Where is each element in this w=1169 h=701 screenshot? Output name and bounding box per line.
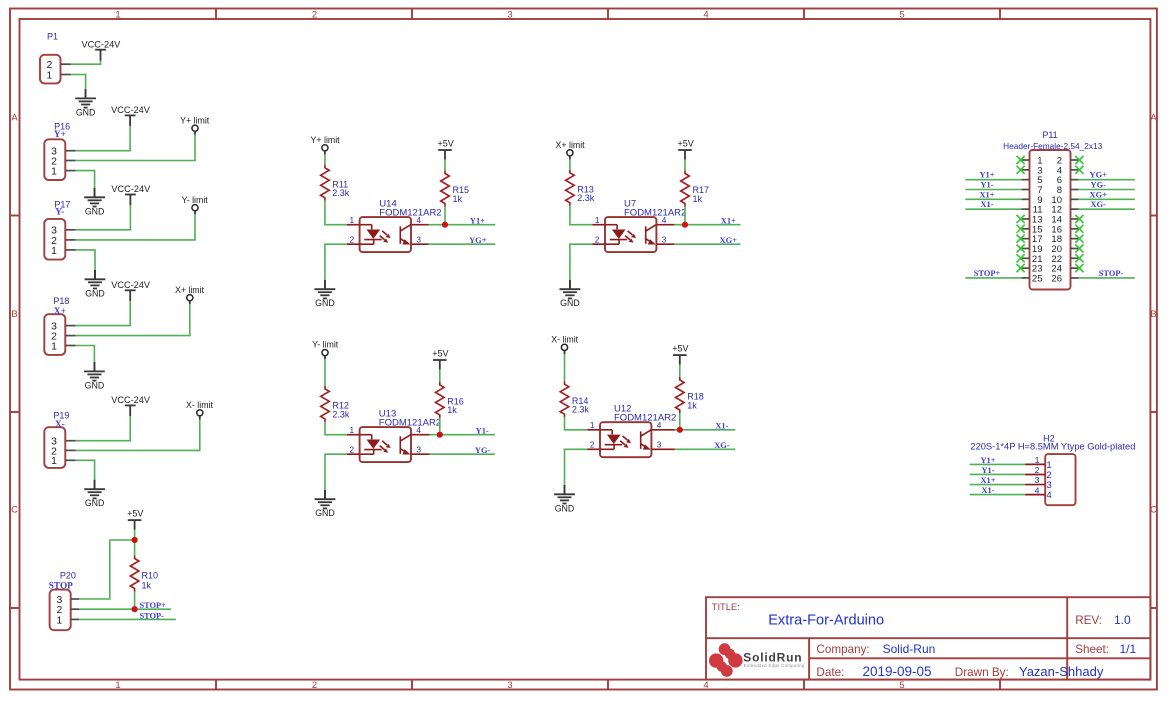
ground (P1) [75, 89, 96, 117]
wire [570, 206, 593, 225]
svg-text:X- limit: X- limit [551, 335, 578, 345]
junction [132, 537, 138, 543]
svg-text:3: 3 [507, 680, 512, 691]
svg-text:YG+: YG+ [469, 236, 487, 245]
svg-text:Company:: Company: [816, 643, 869, 656]
svg-text:4: 4 [1035, 485, 1040, 495]
ground (U12) [554, 485, 575, 513]
resistor R13 [566, 170, 575, 206]
connector P16 [44, 139, 75, 180]
svg-text:2.3k: 2.3k [332, 188, 350, 198]
svg-text:C: C [11, 504, 18, 515]
power +5V (U12) [672, 344, 688, 365]
svg-text:Drawn By:: Drawn By: [955, 666, 1009, 679]
frame tick [607, 9, 609, 20]
frame tick [215, 680, 217, 690]
no-connect [1017, 215, 1025, 223]
node X+ limit flag [556, 140, 586, 160]
wire / net YG+ [429, 243, 496, 245]
ground (P18) [84, 362, 105, 390]
wire [79, 540, 134, 599]
svg-text:Y1-: Y1- [980, 180, 993, 189]
no-connect [1075, 254, 1083, 262]
ground (U14) [315, 280, 336, 308]
svg-text:Solid-Run: Solid-Run [883, 642, 936, 656]
svg-text:P20: P20 [60, 570, 76, 580]
svg-text:2: 2 [312, 9, 317, 20]
wire [76, 135, 195, 161]
svg-text:FODM121AR2: FODM121AR2 [379, 207, 441, 218]
svg-text:3: 3 [507, 9, 512, 20]
svg-text:4: 4 [1046, 490, 1052, 501]
svg-text:1/1: 1/1 [1120, 642, 1137, 656]
svg-text:YG-: YG- [475, 446, 491, 455]
wire [325, 454, 347, 490]
wire / net X1+ [674, 224, 740, 226]
svg-text:4: 4 [703, 9, 708, 20]
svg-text:1: 1 [56, 615, 62, 626]
optocoupler U14 pins 1,2,3,4 [347, 215, 429, 252]
svg-text:3: 3 [1035, 475, 1040, 485]
svg-text:A: A [11, 112, 18, 123]
power +5V (P20) [127, 508, 143, 529]
no-connect [1017, 166, 1025, 174]
power +5V (U14) [437, 138, 453, 159]
wire / net XG- [675, 448, 735, 450]
power VCC-24V (P16) [111, 105, 151, 126]
SolidRun logo mark [709, 643, 743, 677]
svg-text:1k: 1k [693, 194, 703, 204]
power +5V (U13) [432, 348, 448, 369]
frame tick [215, 9, 217, 20]
wire [570, 244, 593, 280]
svg-text:Y1-: Y1- [476, 426, 489, 435]
svg-text:XG-: XG- [714, 441, 730, 450]
svg-text:X- limit: X- limit [186, 400, 213, 410]
svg-text:Y-: Y- [55, 207, 64, 217]
no-connect [1017, 235, 1025, 243]
node X+ limit flag [175, 285, 205, 305]
svg-text:X1+: X1+ [721, 216, 736, 225]
svg-text:X1-: X1- [715, 422, 728, 431]
svg-text:1.0: 1.0 [1114, 613, 1131, 627]
svg-text:Y+ limit: Y+ limit [180, 115, 210, 125]
no-connect [1075, 264, 1083, 272]
no-connect [1075, 235, 1083, 243]
node X- limit flag [186, 400, 213, 420]
node X- limit flag [551, 335, 578, 355]
svg-text:XG-: XG- [1091, 200, 1107, 209]
svg-text:X1-: X1- [981, 486, 994, 495]
node Y+ limit flag [180, 115, 210, 135]
wire [679, 365, 681, 377]
junction [442, 222, 448, 228]
ground (U13) [315, 490, 336, 518]
svg-text:YG+: YG+ [1090, 171, 1108, 180]
svg-text:Y1+: Y1+ [470, 216, 485, 225]
svg-text:P18: P18 [53, 296, 69, 306]
frame tick [10, 411, 20, 413]
svg-text:1k: 1k [142, 581, 152, 591]
no-connect [1075, 166, 1083, 174]
resistor R11 [321, 165, 330, 201]
wire [324, 359, 326, 386]
svg-text:X1-: X1- [980, 200, 993, 209]
wire [569, 159, 571, 169]
svg-text:P11: P11 [1042, 130, 1057, 140]
svg-text:Y1+: Y1+ [979, 171, 994, 180]
svg-text:1: 1 [115, 680, 120, 691]
no-connect [1017, 156, 1025, 164]
wire [444, 207, 446, 225]
frame tick [803, 680, 805, 690]
wire / net Y1- [430, 434, 495, 436]
svg-text:X1+: X1+ [980, 476, 995, 485]
wire / net STOP- [79, 618, 176, 620]
power VCC-24V (P19) [111, 395, 151, 416]
wire / net YG- [1079, 188, 1135, 190]
svg-text:2019-09-05: 2019-09-05 [863, 664, 932, 679]
svg-text:Y+: Y+ [54, 130, 66, 140]
svg-text:TITLE:: TITLE: [712, 602, 740, 612]
svg-text:XG+: XG+ [720, 236, 738, 245]
ground (U7) [560, 280, 581, 308]
wire [76, 416, 131, 441]
node Y- limit flag [182, 195, 209, 214]
power VCC-24V (P18) [111, 280, 151, 301]
resistor R12 [321, 386, 330, 422]
svg-text:X-: X- [55, 420, 65, 430]
svg-text:1: 1 [47, 70, 53, 81]
svg-text:Yazan-Shhady: Yazan-Shhady [1019, 664, 1104, 679]
svg-text:STOP+: STOP+ [974, 269, 1001, 278]
svg-text:FODM121AR2: FODM121AR2 [614, 412, 676, 423]
wire [71, 61, 101, 65]
wire [76, 346, 95, 363]
svg-text:25: 25 [1032, 273, 1043, 284]
connector P17 [44, 219, 75, 260]
svg-text:STOP+: STOP+ [139, 601, 166, 610]
svg-text:220S-1*4P H=8.5MM Ytype Gold-p: 220S-1*4P H=8.5MM Ytype Gold-plated [970, 441, 1135, 451]
wire [134, 530, 136, 540]
wire / net X1- [965, 208, 1021, 210]
node Y+ limit flag [311, 135, 341, 155]
wire [439, 370, 441, 382]
no-connect [1017, 264, 1025, 272]
resistor R15 [441, 171, 450, 207]
connector P20 [50, 590, 80, 631]
svg-text:Y+ limit: Y+ limit [311, 135, 341, 145]
svg-text:B: B [1150, 309, 1156, 320]
frame tick [803, 9, 805, 20]
svg-text:FODM121AR2: FODM121AR2 [624, 207, 686, 218]
resistor R18 [676, 377, 685, 413]
frame tick [607, 680, 609, 690]
wire / net X1- [970, 494, 1025, 496]
wire / net Y1+ [970, 463, 1025, 465]
wire [76, 460, 95, 480]
svg-text:2.3k: 2.3k [332, 409, 350, 419]
svg-text:1k: 1k [687, 400, 697, 410]
optocoupler U13 pins 1,2,3,4 [347, 425, 430, 462]
wire / net Y1+ [429, 224, 496, 226]
wire [76, 214, 195, 240]
no-connect [1017, 244, 1025, 252]
wire / net Y1- [970, 473, 1025, 475]
svg-text:2.3k: 2.3k [572, 405, 590, 415]
svg-text:C: C [1150, 504, 1157, 515]
wire / net YG+ [1079, 179, 1135, 181]
svg-text:5: 5 [899, 9, 904, 20]
frame tick [999, 9, 1001, 20]
svg-text:X1+: X1+ [979, 190, 994, 199]
svg-text:Y- limit: Y- limit [312, 340, 339, 350]
wire [325, 422, 347, 435]
svg-text:2: 2 [312, 680, 317, 691]
svg-text:FODM121AR2: FODM121AR2 [379, 417, 441, 428]
svg-text:1: 1 [51, 456, 57, 467]
svg-text:B: B [11, 309, 17, 320]
wire [134, 592, 136, 610]
connector H2 [1025, 454, 1075, 505]
svg-text:2.3k: 2.3k [577, 193, 595, 203]
svg-text:1k: 1k [453, 194, 463, 204]
svg-text:YG-: YG- [1091, 180, 1107, 189]
svg-text:Date:: Date: [816, 666, 844, 679]
resistor R14 [560, 381, 569, 417]
wire [134, 540, 136, 556]
ground (P16) [84, 188, 105, 216]
junction [132, 606, 138, 612]
connector P19 [44, 427, 75, 468]
no-connect [1075, 215, 1083, 223]
wire [325, 244, 347, 280]
wire [684, 160, 686, 171]
svg-text:5: 5 [899, 680, 904, 691]
frame tick [411, 680, 413, 690]
node Y- limit flag [312, 340, 339, 360]
wire [76, 126, 130, 151]
frame tick [1150, 215, 1157, 217]
frame tick [1150, 607, 1157, 609]
svg-text:X+: X+ [54, 307, 66, 317]
no-connect [1075, 156, 1083, 164]
wire [565, 417, 588, 430]
wire [76, 205, 131, 230]
wire / net Y1- [965, 188, 1021, 190]
wire / net XG- [1079, 208, 1135, 210]
title block [706, 597, 1150, 679]
wire [324, 154, 326, 164]
svg-text:Sheet:: Sheet: [1075, 643, 1109, 656]
resistor R17 [681, 171, 690, 207]
svg-text:STOP-: STOP- [139, 612, 164, 621]
optocoupler U7 pins 1,2,3,4 [592, 215, 674, 252]
svg-text:26: 26 [1051, 273, 1062, 284]
svg-text:STOP: STOP [49, 582, 73, 592]
wire / net YG- [430, 453, 495, 455]
frame tick [999, 680, 1001, 690]
svg-text:1: 1 [51, 341, 57, 352]
wire [679, 413, 681, 430]
resistor R16 [436, 382, 445, 418]
frame tick [411, 9, 413, 20]
svg-text:XG+: XG+ [1090, 190, 1108, 199]
connector P1 [40, 55, 71, 84]
wire [565, 449, 588, 485]
svg-text:X+ limit: X+ limit [556, 140, 586, 150]
resistor R10 [130, 556, 139, 592]
svg-text:X+ limit: X+ limit [175, 285, 205, 295]
svg-text:REV:: REV: [1075, 614, 1102, 627]
svg-text:1: 1 [51, 246, 57, 257]
wire [684, 207, 686, 225]
frame tick [1150, 411, 1157, 413]
wire / net XG+ [1079, 198, 1135, 200]
svg-text:Y- limit: Y- limit [182, 195, 209, 205]
svg-text:1: 1 [51, 167, 57, 178]
wire [76, 301, 131, 326]
no-connect [1075, 244, 1083, 252]
optocoupler U12 pins 1,2,3,4 [587, 420, 675, 457]
svg-text:Header-Female-2.54_2x13: Header-Female-2.54_2x13 [1003, 141, 1103, 151]
frame tick [10, 607, 20, 609]
svg-text:1: 1 [115, 9, 120, 20]
svg-text:2: 2 [1035, 465, 1040, 475]
no-connect [1017, 225, 1025, 233]
wire [76, 304, 190, 335]
wire / net X1+ [965, 198, 1021, 200]
wire / net STOP+ [965, 277, 1021, 279]
power VCC-24V (P1) [81, 39, 121, 60]
svg-text:A: A [1150, 112, 1157, 123]
no-connect [1017, 254, 1025, 262]
wire [325, 201, 347, 225]
svg-text:Y1-: Y1- [981, 466, 994, 475]
wire / net X1+ [970, 484, 1025, 486]
connector P18 [44, 314, 75, 355]
wire / net STOP- [1079, 277, 1135, 279]
wire [76, 250, 95, 270]
svg-text:1k: 1k [447, 405, 457, 415]
wire / net Y1+ [965, 179, 1021, 181]
svg-text:4: 4 [703, 680, 708, 691]
svg-text:P1: P1 [47, 32, 58, 42]
svg-text:R10: R10 [142, 570, 159, 580]
ground (P17) [85, 270, 106, 298]
wire / net X1- [675, 429, 735, 431]
wire [444, 160, 446, 171]
wire [76, 419, 200, 450]
svg-text:1: 1 [1035, 455, 1040, 465]
svg-text:P19: P19 [53, 410, 69, 420]
svg-text:STOP-: STOP- [1099, 269, 1124, 278]
svg-text:Extra-For-Arduino: Extra-For-Arduino [768, 612, 884, 628]
wire [564, 354, 566, 381]
connector P11 [1021, 150, 1078, 290]
wire / net STOP+ [79, 608, 171, 610]
frame tick [10, 215, 20, 217]
ground (P19) [84, 480, 105, 508]
junction [437, 432, 443, 438]
svg-text:Y1+: Y1+ [980, 456, 995, 465]
power +5V (U7) [677, 138, 693, 159]
wire [71, 75, 86, 90]
no-connect [1075, 225, 1083, 233]
power VCC-24V (P17) [111, 184, 151, 205]
junction [682, 222, 688, 228]
wire / net XG+ [674, 243, 740, 245]
svg-text:Embedded Edge Computing: Embedded Edge Computing [744, 663, 805, 668]
junction [677, 427, 683, 433]
wire [439, 418, 441, 435]
wire [76, 171, 95, 189]
